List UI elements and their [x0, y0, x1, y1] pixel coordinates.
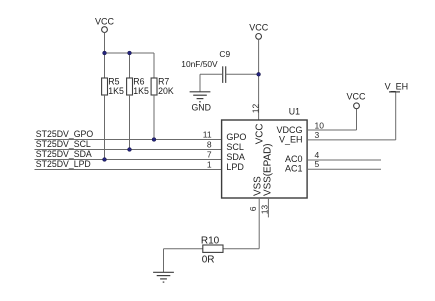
- svg-text:VCC: VCC: [346, 92, 366, 102]
- svg-text:5: 5: [315, 159, 320, 169]
- svg-text:6: 6: [248, 206, 258, 211]
- resistor R5: [102, 77, 124, 97]
- wire pin 4 AC0: [307, 159, 381, 161]
- svg-text:13: 13: [259, 205, 269, 215]
- wire rail to R6 top: [129, 53, 131, 78]
- svg-text:1K5: 1K5: [108, 86, 124, 96]
- svg-text:ST25DV_SCL: ST25DV_SCL: [36, 139, 91, 149]
- svg-text:GPO: GPO: [226, 132, 246, 142]
- resistor R7: [151, 77, 174, 97]
- svg-text:R6: R6: [133, 77, 144, 87]
- resistor R10: [201, 236, 223, 266]
- svg-text:VCC: VCC: [249, 22, 269, 32]
- svg-text:10nF/50V: 10nF/50V: [181, 59, 218, 69]
- power flag VCC left: [95, 16, 115, 32]
- svg-text:0R: 0R: [202, 254, 215, 265]
- svg-text:SDA: SDA: [226, 152, 245, 162]
- wire pin 5 AC1: [307, 168, 381, 170]
- ground bottom: [153, 272, 174, 282]
- wire pin 6 down: [258, 198, 260, 249]
- svg-text:SCL: SCL: [226, 142, 244, 152]
- svg-text:V_EH: V_EH: [279, 135, 303, 145]
- svg-text:V_EH: V_EH: [385, 82, 409, 92]
- svg-text:20K: 20K: [158, 86, 174, 96]
- wire R6 bottom to SCL line: [129, 95, 131, 150]
- svg-text:11: 11: [203, 130, 212, 140]
- junction SDA / R5: [103, 158, 107, 162]
- wire rail to R7 top: [153, 53, 155, 78]
- svg-text:VCC: VCC: [254, 123, 265, 144]
- wire C9 right to VCC column: [226, 73, 259, 75]
- svg-text:7: 7: [207, 150, 212, 160]
- wire C9 left down to ground: [199, 74, 201, 92]
- resistor R6: [127, 77, 149, 97]
- wire C9 left: [200, 73, 223, 75]
- svg-text:R7: R7: [158, 77, 169, 87]
- junction rail at R5: [103, 51, 107, 55]
- svg-text:10: 10: [315, 121, 325, 131]
- wire pin 3 to V_EH: [307, 92, 396, 140]
- svg-text:VDCG: VDCG: [276, 125, 302, 135]
- wire pin 6 horizontal to R10: [164, 248, 260, 250]
- svg-text:12: 12: [250, 103, 260, 113]
- wire VCC top down to IC pin 12: [258, 39, 260, 120]
- svg-text:ST25DV_LPD: ST25DV_LPD: [36, 159, 91, 169]
- power flag VCC right: [346, 92, 366, 109]
- junction rail at R6: [128, 51, 132, 55]
- svg-text:1: 1: [207, 160, 212, 170]
- net ST25DV_SCL: [35, 139, 222, 149]
- net ST25DV_LPD: [35, 159, 222, 169]
- svg-text:VSS(EPAD): VSS(EPAD): [262, 144, 273, 197]
- net ST25DV_GPO: [35, 129, 222, 139]
- wire rail to R5 top: [104, 53, 106, 78]
- junction C9 / VCC column: [257, 72, 261, 76]
- svg-text:GND: GND: [191, 103, 210, 113]
- svg-text:3: 3: [315, 130, 320, 140]
- svg-text:VCC: VCC: [95, 16, 115, 26]
- svg-text:ST25DV_GPO: ST25DV_GPO: [36, 129, 94, 139]
- wire R10 left down to ground: [163, 249, 165, 273]
- svg-text:AC1: AC1: [285, 164, 303, 174]
- net ST25DV_SDA: [35, 149, 222, 159]
- wire pin 10 to VCC: [307, 109, 356, 130]
- power flag VCC top: [249, 22, 269, 39]
- ground GND top: [190, 92, 211, 113]
- wire VCC left down to rail: [104, 33, 106, 54]
- svg-text:R5: R5: [108, 77, 119, 87]
- svg-text:R10: R10: [201, 236, 220, 247]
- wire R5 bottom to SDA line: [104, 95, 106, 160]
- capacitor C9: [181, 49, 230, 83]
- svg-text:C9: C9: [219, 49, 230, 59]
- svg-text:ST25DV_SDA: ST25DV_SDA: [36, 149, 92, 159]
- junction SCL / R6: [128, 148, 132, 152]
- svg-text:1K5: 1K5: [133, 86, 149, 96]
- wire top rail: [105, 52, 155, 54]
- junction GPO / R7: [152, 138, 156, 142]
- IC U1 box: [222, 107, 308, 199]
- svg-text:LPD: LPD: [226, 162, 244, 172]
- wire pin 13 stub: [267, 198, 269, 217]
- svg-text:8: 8: [207, 140, 212, 150]
- svg-text:U1: U1: [289, 107, 300, 117]
- wire R7 bottom to GPO line: [153, 95, 155, 140]
- port V_EH: [385, 82, 409, 92]
